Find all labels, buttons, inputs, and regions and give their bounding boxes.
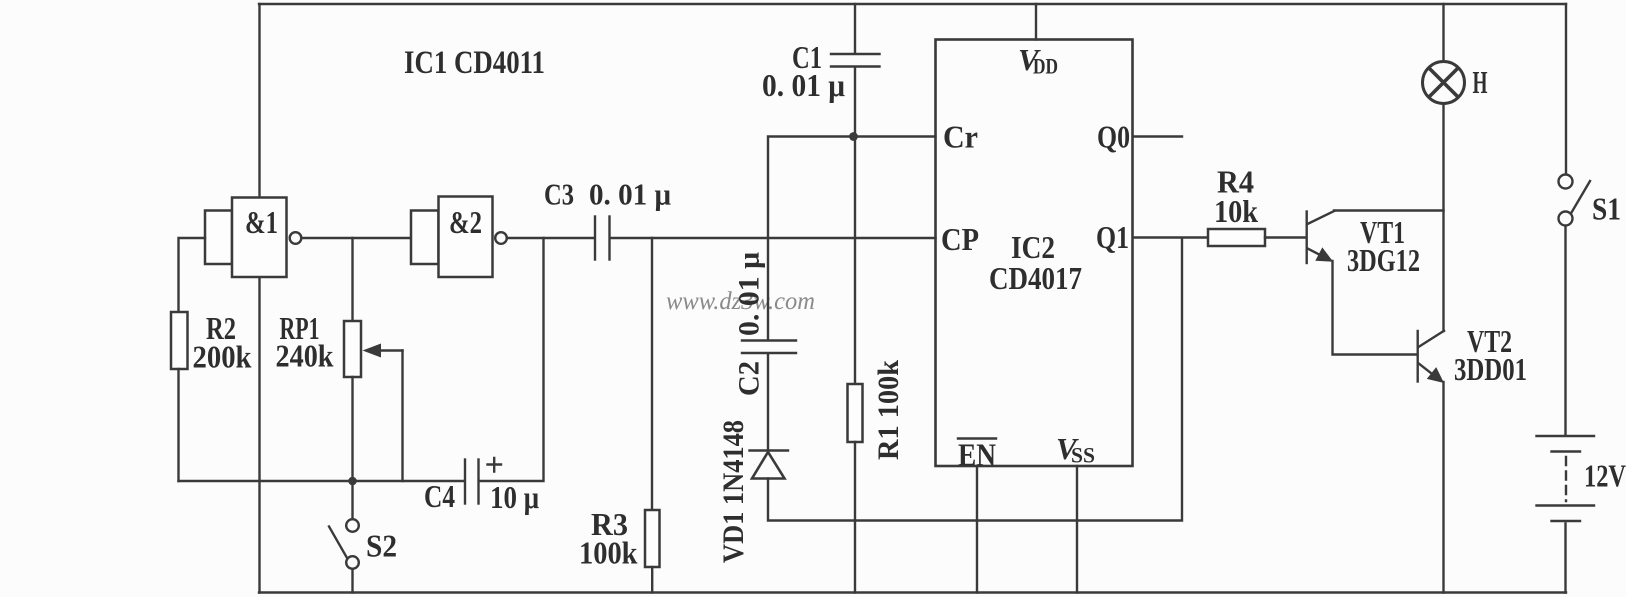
svg-text:SS: SS <box>1071 443 1095 468</box>
wire RP1 top lead <box>351 238 353 321</box>
svg-text:0. 01 μ: 0. 01 μ <box>589 177 671 212</box>
wire R3 bottom lead <box>651 567 653 593</box>
svg-text:IC1 CD4011: IC1 CD4011 <box>404 45 545 81</box>
node RP1/S2 junction <box>348 477 357 486</box>
gate &2 output bubble <box>495 232 507 244</box>
diode VD1 1N4148 <box>750 451 789 479</box>
svg-text:Q1: Q1 <box>1096 219 1129 255</box>
wire C2 bottom to diode VD1 <box>767 355 769 450</box>
wire right rail to S1 <box>1565 4 1567 174</box>
wire Q0 stub <box>1133 135 1182 137</box>
wire VDD pin to top rail <box>1035 4 1037 40</box>
gate &1 output bubble <box>290 232 302 244</box>
svg-text:Q0: Q0 <box>1097 119 1130 155</box>
svg-text:S2: S2 <box>366 528 397 564</box>
wire S1 to battery <box>1564 226 1566 435</box>
svg-text:10k: 10k <box>1214 193 1258 229</box>
capacitor C1 <box>831 54 880 67</box>
RP1 wiper arrow <box>372 349 403 351</box>
wire battery to bottom rail <box>1564 524 1566 593</box>
wire gate &1 input / R2 top lead <box>179 238 206 312</box>
op-amp U1: NAND gate &1 of IC1 <box>205 198 287 278</box>
op-amp U2: IC2 CD4017 box <box>936 40 1133 467</box>
wire Cr pin horizontal with corner down to C2 <box>768 137 936 340</box>
svg-text:C2: C2 <box>733 361 766 396</box>
capacitor C4 <box>465 458 501 504</box>
svg-text:0. 01 μ: 0. 01 μ <box>762 67 845 103</box>
wire C3 to CP pin of IC2 <box>612 237 936 239</box>
wire bottom rail <box>259 591 1566 593</box>
svg-text:C3: C3 <box>544 177 574 212</box>
svg-text:0. 01 μ: 0. 01 μ <box>733 252 766 336</box>
wire VT1 emitter to VT2 base <box>1333 261 1417 355</box>
capacitor C3 <box>595 217 610 260</box>
switch S1 <box>1559 175 1591 226</box>
wire S2 bottom lead <box>351 569 353 593</box>
svg-text:S1: S1 <box>1592 191 1621 227</box>
svg-text:3DG12: 3DG12 <box>1347 242 1420 278</box>
battery GB 12V <box>1537 436 1595 521</box>
capacitor C2 <box>742 341 796 354</box>
wire VD1 anode to Q1 node (bottom horizontal) <box>768 239 1182 521</box>
svg-text:200k: 200k <box>193 339 252 375</box>
wire RP1 wiper return <box>401 351 403 482</box>
svg-text:C4: C4 <box>424 478 455 514</box>
svg-text:R1 100k: R1 100k <box>872 360 905 460</box>
node Cr/C1 junction <box>849 132 858 141</box>
wire Q1 to R4 <box>1133 236 1208 238</box>
svg-text:CD4017: CD4017 <box>989 260 1082 296</box>
wire left rail (top to gate &1 top pin) <box>258 4 260 198</box>
wire EN pin to bottom rail <box>976 466 978 593</box>
svg-text:100k: 100k <box>579 535 638 571</box>
svg-text:DD: DD <box>1033 54 1058 79</box>
wire lamp top lead <box>1442 4 1444 62</box>
svg-text:H: H <box>1473 64 1488 100</box>
switch S2 <box>329 519 359 569</box>
wire gate &2 output to C3 <box>507 237 593 239</box>
wire C1 bottom to R1 top <box>854 68 856 384</box>
wire R1 bottom lead <box>854 442 856 593</box>
potentiometer RP1 <box>344 321 361 377</box>
wire lamp bottom to VT1/VT2 collector node <box>1442 104 1444 332</box>
svg-text:12V: 12V <box>1584 458 1626 494</box>
wire gate &1 output to gate &2 input <box>301 237 411 239</box>
wire VSS pin to bottom rail <box>1076 466 1078 593</box>
svg-text:&1: &1 <box>245 204 278 240</box>
svg-text:&2: &2 <box>449 204 482 240</box>
svg-text:Cr: Cr <box>943 119 978 155</box>
svg-text:VD1 1N4148: VD1 1N4148 <box>717 420 750 563</box>
svg-text:10 μ: 10 μ <box>490 479 539 515</box>
resistor R2 <box>171 312 188 369</box>
resistor R3 <box>645 510 660 567</box>
wire RP1 bottom lead <box>351 377 353 481</box>
wire top rail <box>259 3 1566 5</box>
wire S2 top lead <box>351 481 353 519</box>
lamp H <box>1423 62 1465 104</box>
transistor Q2: VT2 3DD01 <box>1418 331 1444 383</box>
svg-text:CP: CP <box>941 221 979 257</box>
wire C1 top lead <box>854 4 856 53</box>
svg-text:240k: 240k <box>276 338 334 374</box>
resistor R4 <box>1208 229 1265 246</box>
wire C4 right plate up to gate &2 output node <box>481 238 544 481</box>
NAND gate &2 of IC1 <box>411 197 493 278</box>
transistor Q1: VT1 3DG12 <box>1307 211 1335 263</box>
wire VT1 collector <box>1334 209 1444 211</box>
svg-text:3DD01: 3DD01 <box>1454 351 1527 387</box>
resistor R1 <box>848 384 863 442</box>
wire VT2 emitter to bottom rail <box>1442 382 1444 593</box>
wire R3 top lead <box>651 238 653 510</box>
wire bottom-left horizontal rail <box>179 480 464 482</box>
wire R4 to VT1 base <box>1265 236 1306 238</box>
wire R2 bottom lead <box>177 369 179 481</box>
wire gate &1 bottom pin down to bottom rail <box>258 277 260 593</box>
